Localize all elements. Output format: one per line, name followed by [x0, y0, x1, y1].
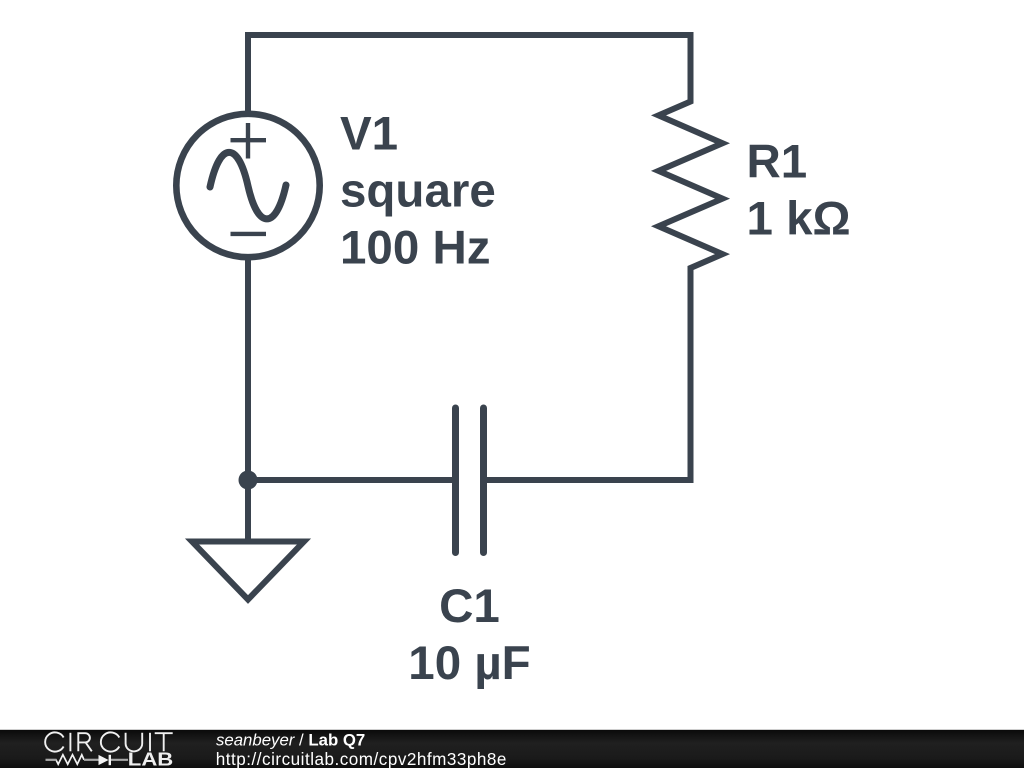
svg-text:100 Hz: 100 Hz — [340, 222, 491, 275]
svg-text:C1: C1 — [439, 580, 500, 633]
svg-text:V1: V1 — [340, 108, 398, 161]
svg-text:R1: R1 — [747, 136, 808, 189]
svg-text:10 µF: 10 µF — [408, 637, 530, 690]
svg-text:LAB: LAB — [128, 750, 174, 768]
svg-text:seanbeyer / Lab Q7: seanbeyer / Lab Q7 — [216, 730, 365, 749]
svg-text:http://circuitlab.com/cpv2hfm3: http://circuitlab.com/cpv2hfm33ph8e — [216, 750, 507, 768]
svg-text:1 kΩ: 1 kΩ — [747, 193, 851, 246]
svg-text:square: square — [340, 165, 496, 218]
